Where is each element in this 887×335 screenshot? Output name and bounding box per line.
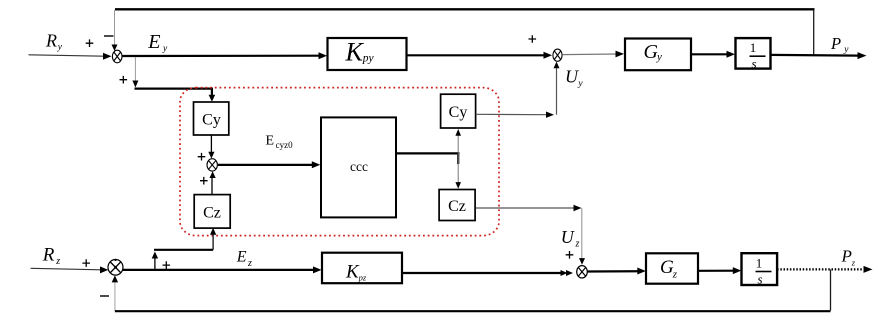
svg-text:y: y [57, 43, 63, 53]
block CCC [321, 117, 396, 217]
block Cz right [439, 190, 475, 221]
svg-text:ccc: ccc [350, 159, 368, 174]
wire feedback drop into summing junction S1 [112, 10, 118, 51]
summing junction S3 [207, 159, 217, 171]
block Cy left [194, 102, 229, 135]
svg-text:P: P [841, 247, 852, 266]
svg-text:Cy: Cy [202, 112, 221, 129]
svg-text:pz: pz [358, 272, 367, 282]
wire G_y to integrator [691, 51, 735, 58]
svg-text:y: y [843, 45, 849, 55]
wire feedback drop right from P_y output [813, 9, 815, 55]
minus label at S1 [104, 35, 114, 37]
summing junction S5 [577, 266, 588, 278]
wire R_y input [29, 53, 112, 60]
plus label at S2 [529, 35, 537, 43]
wire P_z dotted output [777, 266, 872, 273]
wire branch E_z up to Cz [152, 228, 217, 270]
CCC dashed red boundary [180, 88, 499, 236]
wire Cy right output up to S2 [476, 62, 560, 118]
wire K_pz to summing junction S5 [402, 270, 573, 276]
wire Cz right output down to S5 [476, 205, 585, 265]
svg-text:E: E [147, 31, 160, 53]
svg-text:U: U [561, 227, 575, 247]
wire S5 to G_z [587, 268, 646, 275]
wire feedback drop from P_z output [830, 269, 832, 310]
wire Cz to summing junction S3 [210, 171, 216, 194]
wire E_z to K_pz [123, 266, 322, 273]
svg-text:y: y [656, 51, 662, 63]
plus label at branch [163, 261, 171, 269]
block Cy right [441, 94, 476, 128]
svg-text:R: R [45, 31, 57, 51]
block K_py [328, 37, 407, 70]
wire S2 to G_y [562, 51, 624, 58]
svg-text:z: z [247, 258, 252, 269]
svg-text:R: R [42, 245, 55, 266]
svg-text:z: z [672, 269, 678, 281]
wire R_z input [31, 266, 109, 273]
summing junction S1 [112, 50, 122, 63]
wire Cy to summing junction S3 [208, 135, 214, 159]
svg-text:P: P [830, 34, 841, 53]
plus label at S4 input [82, 259, 90, 267]
wire feedback up into S4 [112, 275, 118, 311]
wire branch E_y down to Cy [132, 57, 215, 102]
plus label at S1 input [86, 39, 94, 47]
svg-text:E: E [236, 248, 247, 265]
svg-text:1: 1 [750, 40, 757, 55]
svg-text:z: z [575, 239, 580, 250]
wire top feedback horizontal from P_y [115, 8, 815, 10]
block G_y [625, 39, 691, 71]
wire K_py to summing junction S2 [407, 52, 553, 59]
block K_pz [322, 253, 402, 284]
plus label at branch corner [120, 76, 128, 84]
svg-text:Cz: Cz [203, 205, 221, 222]
wire CCC output [396, 152, 459, 164]
summing junction S2 [553, 49, 562, 61]
svg-text:U: U [565, 67, 579, 87]
summing junction S4 [108, 259, 123, 275]
svg-text:Cy: Cy [449, 104, 468, 121]
wire P_y output [771, 52, 867, 59]
wire double arrow to Cy and Cz right [455, 129, 461, 189]
plus label at S5 top [566, 251, 574, 259]
svg-text:z: z [851, 258, 856, 268]
wire E_y to K_py [123, 52, 328, 59]
svg-text:K: K [345, 37, 365, 66]
plus label S3 lower [200, 177, 208, 185]
block G_z [646, 253, 698, 283]
svg-text:s: s [757, 272, 762, 287]
svg-text:y: y [162, 44, 168, 54]
minus label below S4 [100, 295, 109, 297]
svg-text:1: 1 [756, 256, 763, 271]
block integrator 1/s top [736, 38, 771, 71]
wire bottom feedback horizontal [115, 310, 831, 312]
wire S3 to CCC [218, 161, 320, 168]
block Cz left [194, 195, 230, 229]
block integrator 1/s bottom [742, 253, 778, 286]
svg-text:Cz: Cz [448, 198, 466, 215]
svg-text:z: z [55, 256, 60, 267]
wire G_z to integrator bottom [698, 267, 741, 274]
svg-text:s: s [751, 56, 756, 71]
svg-text:py: py [362, 52, 375, 64]
svg-text:y: y [577, 79, 583, 89]
svg-text:E: E [266, 133, 275, 148]
plus label S3 upper [198, 153, 206, 161]
svg-text:cyz0: cyz0 [276, 140, 293, 150]
